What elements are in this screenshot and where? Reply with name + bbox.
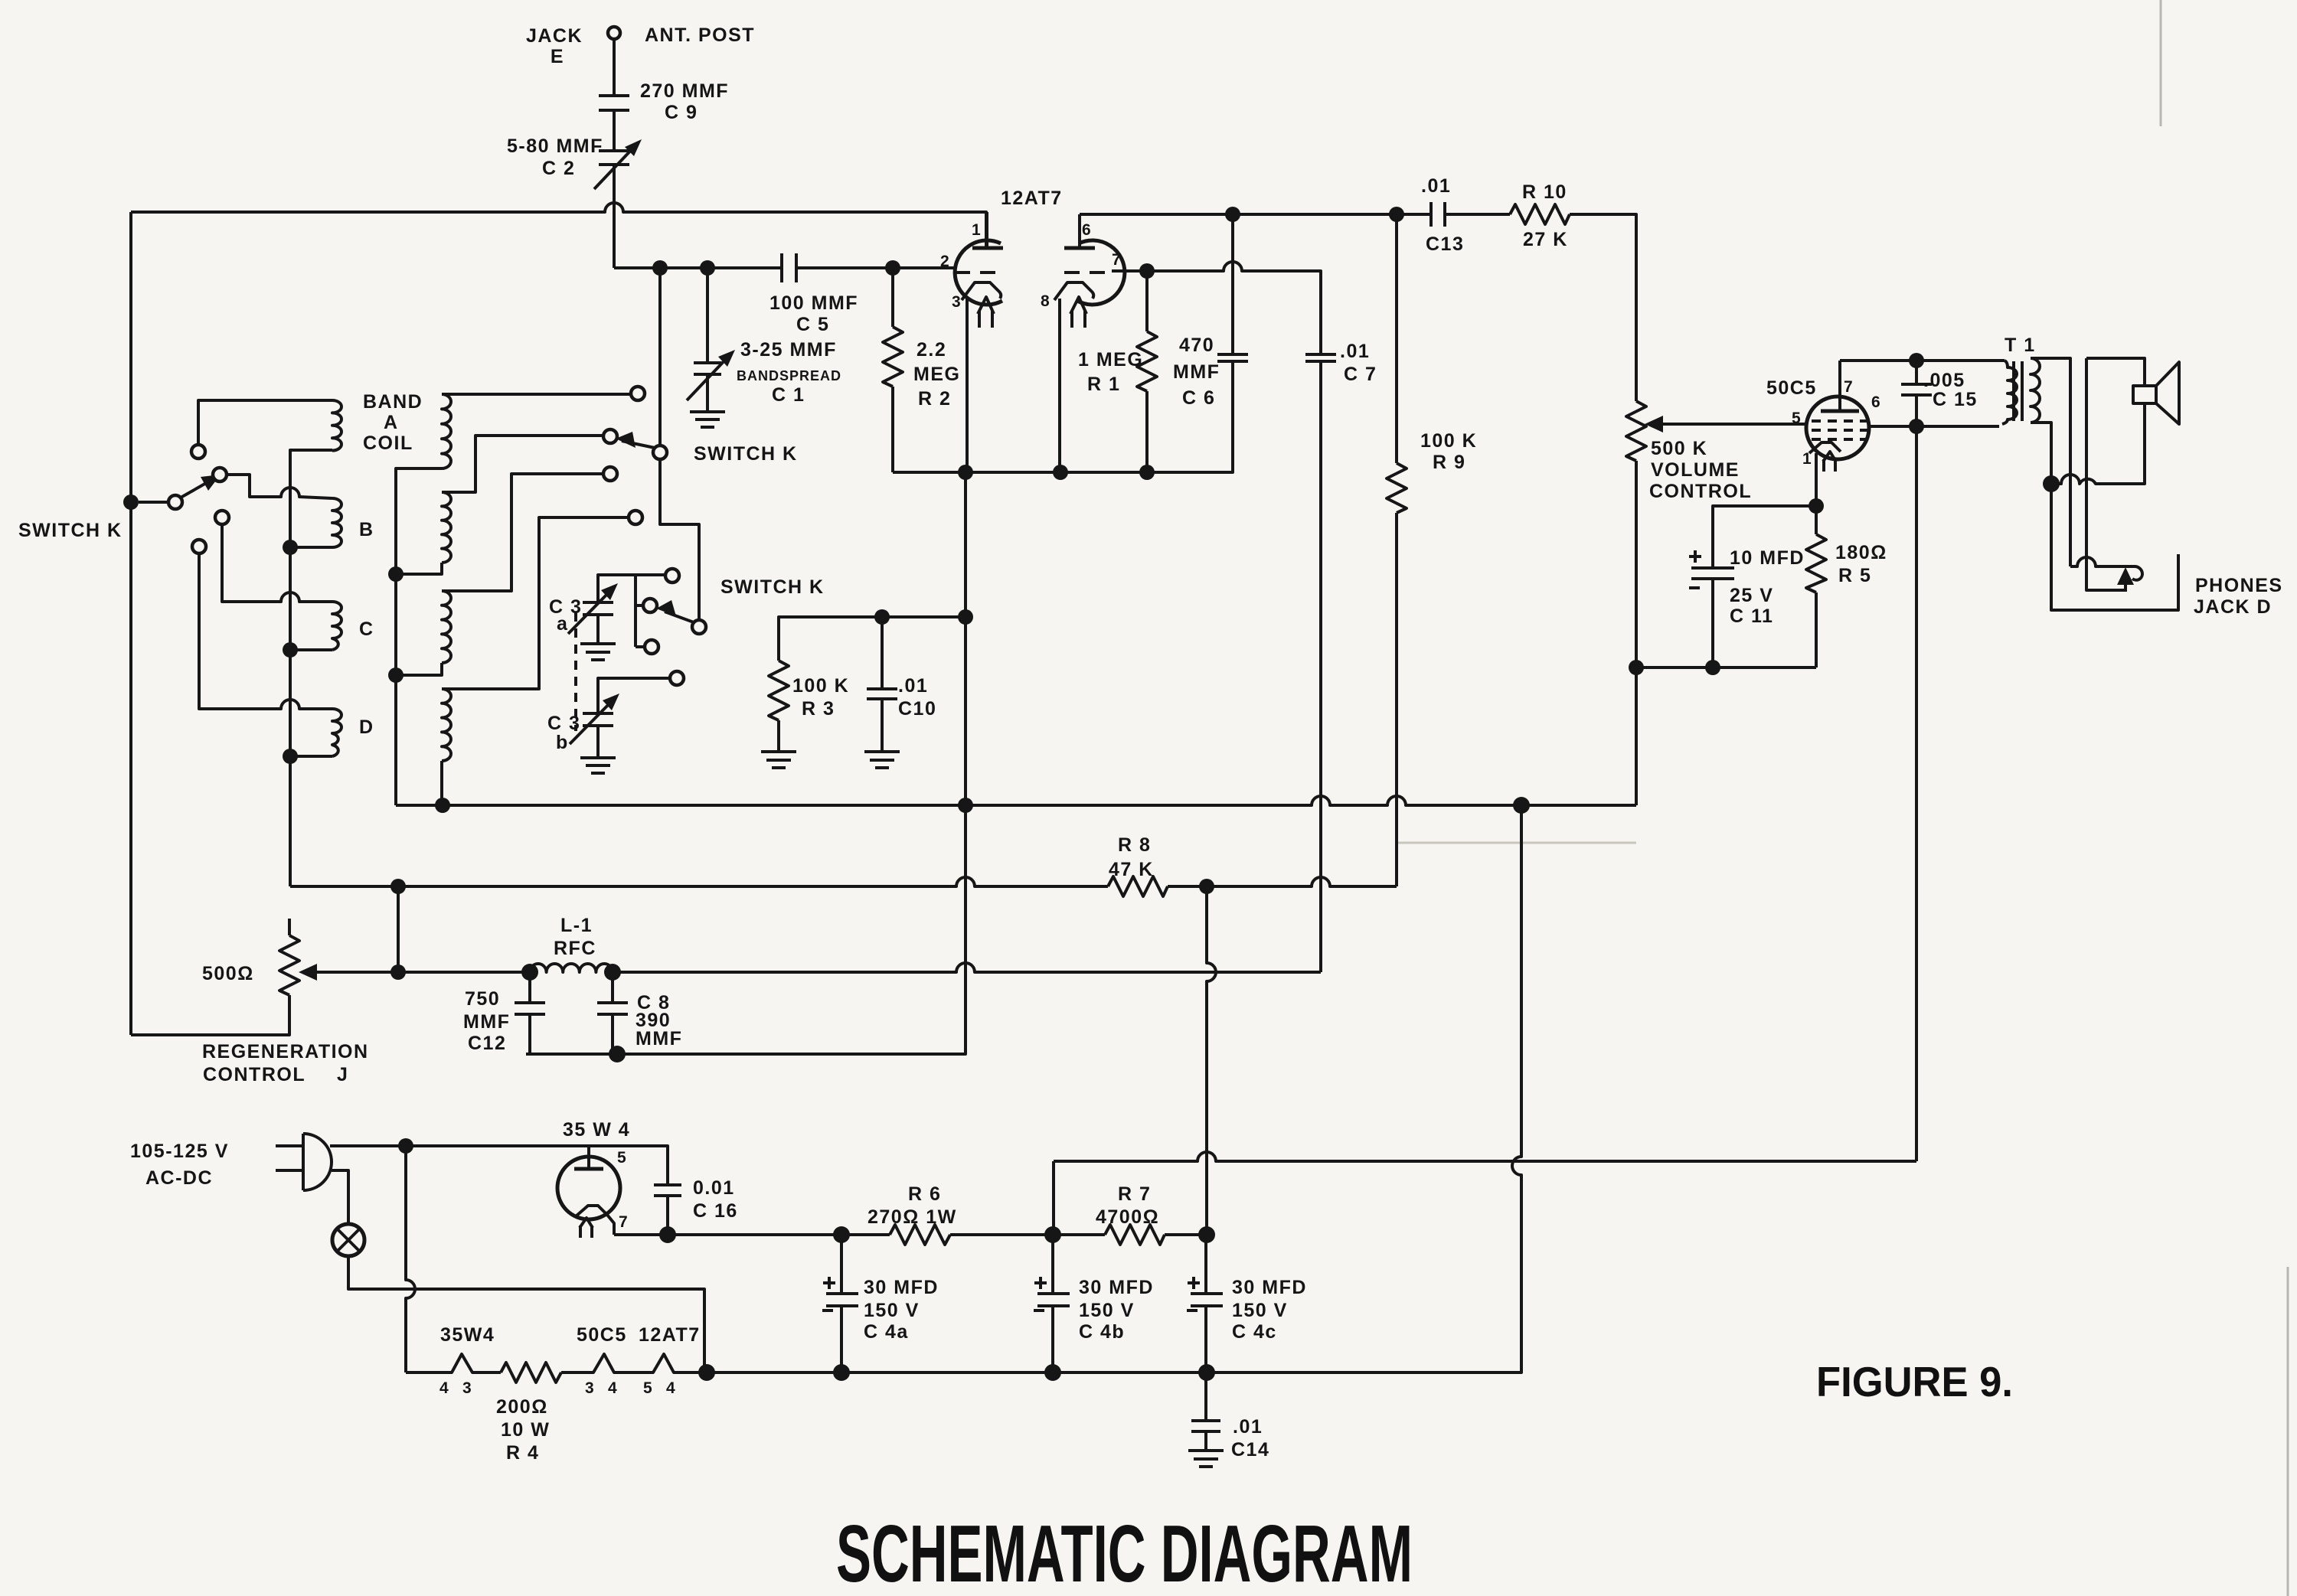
svg-text:R 4: R 4 — [506, 1442, 539, 1464]
svg-text:30 MFD: 30 MFD — [1079, 1277, 1154, 1298]
svg-text:SCHEMATIC DIAGRAM: SCHEMATIC DIAGRAM — [836, 1509, 1413, 1596]
svg-text:100 K: 100 K — [1420, 430, 1477, 452]
svg-text:100 K: 100 K — [792, 675, 849, 697]
svg-text:2: 2 — [940, 253, 949, 270]
svg-text:3: 3 — [462, 1379, 472, 1397]
svg-text:R 10: R 10 — [1522, 181, 1567, 203]
svg-text:a: a — [557, 613, 568, 635]
svg-text:3: 3 — [952, 293, 961, 311]
svg-text:10 W: 10 W — [501, 1419, 550, 1441]
svg-text:6: 6 — [1871, 393, 1880, 411]
svg-text:b: b — [556, 732, 569, 753]
svg-text:50C5: 50C5 — [1766, 377, 1817, 399]
svg-text:REGENERATION: REGENERATION — [202, 1041, 369, 1062]
svg-text:C13: C13 — [1426, 233, 1464, 255]
svg-text:3-25 MMF: 3-25 MMF — [740, 339, 837, 361]
svg-text:C: C — [359, 618, 374, 640]
svg-text:JACK D: JACK D — [2194, 596, 2272, 618]
svg-text:SWITCH K: SWITCH K — [18, 520, 123, 541]
svg-text:R 2: R 2 — [918, 388, 951, 410]
svg-text:4: 4 — [666, 1379, 675, 1397]
svg-text:750: 750 — [465, 988, 500, 1010]
svg-text:1: 1 — [972, 221, 981, 239]
svg-text:MMF: MMF — [463, 1011, 510, 1033]
svg-text:.01: .01 — [1340, 341, 1370, 362]
svg-text:CONTROL: CONTROL — [203, 1064, 306, 1085]
svg-text:27 K: 27 K — [1523, 229, 1568, 250]
svg-text:R 6: R 6 — [908, 1183, 941, 1205]
svg-text:MEG: MEG — [913, 364, 960, 385]
svg-text:8: 8 — [1041, 292, 1050, 310]
svg-text:7: 7 — [1844, 378, 1853, 396]
svg-text:C 7: C 7 — [1344, 364, 1377, 385]
svg-text:C 1: C 1 — [772, 384, 805, 406]
svg-text:MMF: MMF — [1173, 361, 1220, 383]
svg-text:C 2: C 2 — [542, 158, 575, 179]
svg-text:6: 6 — [1082, 221, 1091, 239]
svg-text:25 V: 25 V — [1730, 585, 1773, 606]
svg-text:500 K: 500 K — [1651, 438, 1707, 459]
svg-text:MMF: MMF — [636, 1028, 682, 1049]
svg-text:35 W 4: 35 W 4 — [563, 1119, 630, 1141]
svg-text:150 V: 150 V — [864, 1300, 920, 1321]
svg-text:2.2: 2.2 — [917, 339, 946, 361]
svg-text:50C5: 50C5 — [577, 1324, 627, 1346]
svg-text:BANDSPREAD: BANDSPREAD — [737, 368, 841, 383]
svg-text:BAND: BAND — [363, 391, 423, 413]
svg-text:105-125 V: 105-125 V — [130, 1141, 229, 1162]
svg-text:A: A — [384, 412, 399, 433]
svg-text:7: 7 — [619, 1213, 628, 1231]
svg-text:R 5: R 5 — [1838, 565, 1871, 586]
svg-text:10 MFD: 10 MFD — [1730, 547, 1805, 569]
svg-text:4700Ω: 4700Ω — [1096, 1206, 1159, 1228]
svg-text:150 V: 150 V — [1232, 1300, 1288, 1321]
svg-text:5: 5 — [1792, 410, 1801, 427]
svg-text:RFC: RFC — [554, 938, 596, 959]
svg-text:3: 3 — [585, 1379, 594, 1397]
svg-text:1 MEG: 1 MEG — [1078, 349, 1143, 370]
svg-text:FIGURE 9.: FIGURE 9. — [1816, 1358, 2013, 1405]
svg-text:R 9: R 9 — [1433, 452, 1465, 473]
svg-text:R 1: R 1 — [1087, 374, 1120, 395]
svg-text:12AT7: 12AT7 — [639, 1324, 701, 1346]
svg-text:R 8: R 8 — [1118, 834, 1151, 856]
svg-text:5-80 MMF: 5-80 MMF — [507, 135, 603, 157]
svg-text:C 16: C 16 — [693, 1200, 738, 1222]
svg-text:C 15: C 15 — [1933, 389, 1978, 410]
svg-text:4: 4 — [608, 1379, 617, 1397]
svg-text:5: 5 — [643, 1379, 652, 1397]
svg-text:270Ω 1W: 270Ω 1W — [868, 1206, 957, 1228]
svg-text:30 MFD: 30 MFD — [1232, 1277, 1307, 1298]
svg-text:C 4b: C 4b — [1079, 1321, 1125, 1343]
svg-text:.01: .01 — [1233, 1416, 1263, 1438]
svg-text:5: 5 — [617, 1149, 626, 1167]
svg-text:470: 470 — [1179, 335, 1214, 356]
svg-text:200Ω: 200Ω — [496, 1396, 548, 1418]
svg-text:VOLUME: VOLUME — [1651, 459, 1740, 481]
svg-text:R 3: R 3 — [802, 698, 835, 720]
svg-text:PHONES: PHONES — [2195, 575, 2283, 596]
svg-text:CONTROL: CONTROL — [1649, 481, 1752, 502]
svg-text:100 MMF: 100 MMF — [769, 292, 858, 314]
svg-text:35W4: 35W4 — [440, 1324, 495, 1346]
svg-text:0.01: 0.01 — [693, 1177, 735, 1199]
svg-text:C 3: C 3 — [547, 713, 580, 734]
svg-text:180Ω: 180Ω — [1835, 542, 1887, 563]
svg-text:.01: .01 — [1421, 175, 1451, 197]
svg-text:C12: C12 — [468, 1033, 506, 1054]
svg-text:JACK: JACK — [526, 25, 583, 47]
svg-text:C 4c: C 4c — [1232, 1321, 1277, 1343]
svg-text:C 5: C 5 — [796, 314, 829, 335]
svg-text:7: 7 — [1112, 251, 1121, 269]
svg-text:150 V: 150 V — [1079, 1300, 1135, 1321]
svg-text:C 9: C 9 — [665, 102, 698, 123]
svg-text:ANT. POST: ANT. POST — [645, 24, 755, 46]
svg-text:500Ω: 500Ω — [202, 963, 254, 984]
svg-text:4: 4 — [439, 1379, 449, 1397]
svg-text:SWITCH K: SWITCH K — [720, 576, 825, 598]
svg-text:D: D — [359, 716, 374, 738]
svg-text:C 11: C 11 — [1730, 605, 1773, 627]
svg-text:.01: .01 — [898, 675, 928, 697]
svg-text:SWITCH K: SWITCH K — [694, 443, 798, 465]
svg-text:1: 1 — [1802, 450, 1812, 468]
svg-text:.005: .005 — [1923, 370, 1965, 391]
svg-text:AC-DC: AC-DC — [145, 1167, 213, 1189]
svg-text:J: J — [337, 1064, 348, 1085]
svg-text:C 4a: C 4a — [864, 1321, 909, 1343]
svg-text:L-1: L-1 — [560, 915, 593, 936]
svg-text:B: B — [359, 519, 374, 540]
svg-text:T 1: T 1 — [2005, 335, 2036, 356]
svg-text:47 K: 47 K — [1109, 859, 1154, 880]
svg-text:E: E — [551, 46, 564, 67]
svg-text:30 MFD: 30 MFD — [864, 1277, 939, 1298]
svg-text:C14: C14 — [1231, 1439, 1269, 1461]
svg-text:C10: C10 — [898, 698, 936, 720]
svg-text:COIL: COIL — [363, 432, 413, 454]
svg-text:12AT7: 12AT7 — [1001, 188, 1063, 209]
svg-text:R 7: R 7 — [1118, 1183, 1151, 1205]
svg-text:270 MMF: 270 MMF — [640, 80, 729, 102]
svg-text:C 6: C 6 — [1182, 387, 1215, 409]
